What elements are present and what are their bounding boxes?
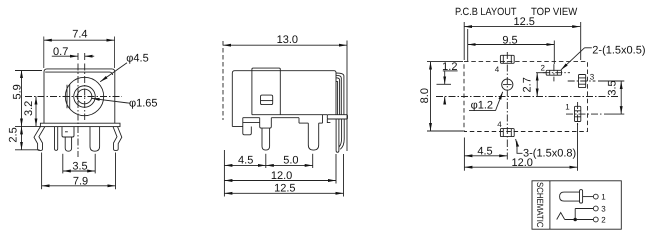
svg-text:1: 1: [601, 193, 606, 202]
svg-text:2.5: 2.5: [8, 127, 20, 142]
svg-text:12.0: 12.0: [271, 170, 292, 182]
svg-text:4.5: 4.5: [477, 146, 492, 158]
svg-text:3: 3: [601, 205, 606, 214]
svg-text:13.0: 13.0: [277, 34, 298, 46]
svg-text:3.5: 3.5: [607, 80, 619, 95]
svg-text:1.2: 1.2: [442, 61, 457, 73]
svg-text:3.5: 3.5: [72, 160, 87, 172]
svg-text:φ4.5: φ4.5: [126, 53, 148, 65]
svg-text:7.9: 7.9: [73, 176, 88, 188]
svg-text:5.9: 5.9: [11, 84, 23, 99]
svg-text:12.5: 12.5: [513, 16, 534, 28]
svg-text:SCHEMATIC: SCHEMATIC: [535, 182, 545, 228]
svg-text:12.5: 12.5: [274, 183, 295, 195]
svg-text:4: 4: [497, 120, 502, 129]
svg-text:2-(1.5x0.5): 2-(1.5x0.5): [592, 45, 645, 57]
svg-text:5.0: 5.0: [283, 155, 298, 167]
svg-text:P.C.B LAYOUT: P.C.B LAYOUT: [455, 6, 517, 18]
svg-text:4.5: 4.5: [238, 155, 253, 167]
svg-text:3.2: 3.2: [23, 101, 35, 116]
svg-text:2: 2: [541, 63, 546, 72]
svg-text:φ1.2: φ1.2: [471, 99, 493, 111]
svg-text:TOP VIEW: TOP VIEW: [531, 6, 577, 18]
svg-text:7.4: 7.4: [72, 29, 87, 41]
svg-text:4: 4: [495, 65, 500, 74]
svg-text:8.0: 8.0: [419, 88, 431, 103]
svg-text:2.7: 2.7: [522, 77, 534, 92]
svg-text:1: 1: [565, 103, 570, 112]
svg-text:9.5: 9.5: [502, 35, 517, 47]
svg-text:φ1.65: φ1.65: [129, 98, 158, 110]
svg-text:3-(1.5x0.8): 3-(1.5x0.8): [523, 148, 576, 160]
svg-text:2: 2: [601, 216, 606, 225]
svg-text:3: 3: [590, 72, 595, 81]
svg-text:0.7: 0.7: [53, 46, 68, 58]
